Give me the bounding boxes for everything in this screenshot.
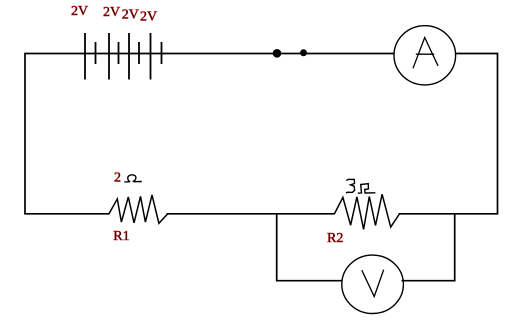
svg-text:R1: R1 (113, 229, 129, 244)
switch contact dot 2 (300, 49, 307, 56)
ammeter U1 circle (394, 26, 456, 85)
wire voltmeter branch right (402, 214, 455, 281)
battery B1 cell 1 long plate (84, 33, 86, 80)
battery B1 cell 4 long plate (150, 33, 152, 80)
battery B1 cell 3 long plate (128, 33, 130, 80)
wire voltmeter branch left (277, 214, 344, 281)
wire bottom horizontal segment 3 (399, 213, 499, 215)
battery B1 cell 4 short plate (161, 42, 163, 64)
svg-text:2V: 2V (103, 5, 120, 20)
switch contact dot 1 (273, 49, 282, 58)
svg-text:2V: 2V (71, 4, 88, 19)
voltmeter U2 circle (342, 255, 404, 313)
wire top-right corner (455, 54, 498, 215)
label ohm symbol (R1 value, hand drawn) (124, 175, 142, 182)
wire top horizontal (left of ammeter) (24, 53, 394, 55)
ammeter U1 letter A (413, 38, 438, 69)
battery B1 cell 3 short plate (138, 42, 140, 64)
svg-text:2V: 2V (122, 7, 139, 22)
svg-text:2V: 2V (140, 9, 157, 24)
label 3 (R2 value, hand drawn) (346, 179, 355, 193)
battery B1 cell 1 short plate (95, 42, 97, 64)
resistor R1 zigzag (109, 195, 168, 223)
battery B1 cell 2 short plate (118, 42, 120, 64)
svg-text:2: 2 (114, 170, 121, 185)
label ohm symbol (R2 value, hand drawn) (358, 184, 376, 194)
battery B1 cell 2 long plate (108, 33, 110, 80)
voltmeter U2 letter V (362, 270, 384, 297)
wire bottom horizontal segment 2 (167, 213, 335, 215)
resistor R2 zigzag (334, 194, 399, 229)
wire bottom horizontal segment 1 (24, 213, 109, 215)
svg-text:R2: R2 (327, 231, 343, 246)
wire left vertical (24, 54, 26, 215)
